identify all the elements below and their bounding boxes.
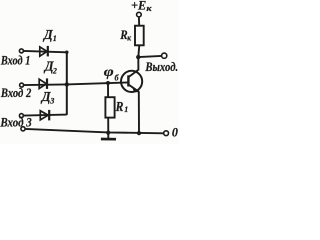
- svg-text:1: 1: [124, 105, 128, 114]
- svg-text:+E: +E: [131, 0, 146, 12]
- svg-text:Д: Д: [42, 27, 53, 42]
- svg-text:Вход 2: Вход 2: [0, 85, 32, 100]
- svg-text:R: R: [115, 99, 124, 114]
- svg-text:φ: φ: [104, 65, 114, 80]
- svg-text:Вход 3: Вход 3: [0, 114, 32, 129]
- svg-text:к: к: [127, 33, 131, 43]
- svg-text:1: 1: [53, 34, 57, 43]
- svg-text:3: 3: [49, 97, 54, 106]
- svg-text:Выход.: Выход.: [145, 59, 179, 74]
- svg-text:к: к: [146, 3, 152, 13]
- svg-text:Вход 1: Вход 1: [0, 52, 30, 67]
- svg-text:0: 0: [172, 125, 178, 140]
- svg-text:2: 2: [52, 67, 57, 76]
- svg-text:б: б: [115, 72, 120, 82]
